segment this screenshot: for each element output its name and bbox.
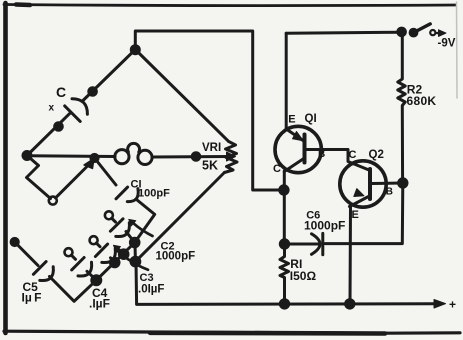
capacitor C2 branch: terminal, plates, wire to D1 — [105, 211, 135, 242]
transistor Q2 — [340, 161, 403, 207]
node on edge lower — [55, 123, 63, 131]
node C6/R1 — [280, 240, 288, 248]
svg-text:1000pF: 1000pF — [304, 219, 345, 233]
resistor R1 — [280, 244, 289, 304]
svg-text:Iµ F: Iµ F — [22, 291, 42, 305]
node wiper feed — [192, 153, 200, 161]
svg-text:1000pF: 1000pF — [156, 251, 196, 263]
svg-text:5K: 5K — [202, 159, 218, 173]
annotation arrow for C3 — [117, 251, 148, 270]
node diamond top — [131, 46, 139, 54]
annotation arrow for C2 — [133, 223, 153, 237]
svg-text:.IµF: .IµF — [89, 297, 110, 311]
svg-text:QI: QI — [305, 113, 317, 125]
wire diamond upper-left edge — [27, 50, 135, 156]
wire C1 branch — [95, 158, 155, 243]
node mid arrow dot — [91, 154, 98, 161]
capacitor C3 branch: terminal, plates, wire to D5 — [90, 236, 116, 262]
wiper arrowhead — [227, 152, 236, 161]
resistor R2 — [398, 32, 405, 183]
switch pivot node — [410, 29, 417, 36]
border frame top — [4, 5, 456, 6]
border frame bottom — [4, 331, 460, 333]
wire C6 left to node — [285, 243, 319, 246]
bottom rail arrowhead to + — [434, 300, 446, 309]
border frame left — [3, 3, 8, 333]
svg-text:B: B — [318, 149, 325, 160]
wire -9V top rail — [286, 32, 401, 33]
wire fan diagonal B — [96, 243, 134, 281]
svg-text:E: E — [352, 209, 359, 221]
svg-text:E: E — [288, 114, 295, 126]
wire top-left rail from diamond top to Q1 collector feed — [135, 31, 283, 190]
node emitter-rail junction — [346, 300, 354, 308]
capacitor C plates — [65, 99, 88, 122]
svg-text:B: B — [386, 187, 393, 198]
node D2 — [119, 250, 128, 259]
wire zigzag from left vertex to open terminal — [27, 156, 51, 199]
svg-text:100pF: 100pF — [138, 188, 170, 200]
switch junction node — [398, 28, 406, 36]
svg-text:x: x — [49, 103, 55, 114]
battery terminal circle — [430, 30, 435, 35]
wire diamond upper-right edge — [135, 50, 228, 142]
node D3 — [131, 257, 140, 266]
battery arrow — [437, 32, 440, 34]
transistor Q1 — [275, 126, 321, 172]
svg-text:Q2: Q2 — [369, 149, 384, 161]
capacitor C6 plates — [312, 233, 323, 254]
terminal open circle O1 — [49, 197, 57, 205]
wire Q2 emitter down to rail — [349, 207, 353, 304]
svg-text:C3: C3 — [140, 272, 154, 284]
svg-text:VRI: VRI — [202, 142, 221, 154]
wire arrow from O1 to mid-line — [56, 165, 90, 198]
svg-text:-9V: -9V — [438, 38, 456, 50]
capacitor C5 branch — [11, 238, 96, 301]
wire diagonal A VR1 to D3 — [135, 173, 224, 262]
switch lever — [414, 24, 431, 33]
wire Q1 emitter vertical — [285, 33, 288, 130]
node R1-rail junction — [280, 300, 288, 308]
node on edge upper — [89, 88, 97, 96]
svg-text:C: C — [273, 163, 281, 175]
node Q2 base junction — [399, 179, 407, 187]
node D1 — [130, 238, 139, 247]
capacitor C4 branch: terminal, plates, wire to D4 — [65, 248, 97, 280]
wire mid line left — [27, 154, 115, 158]
svg-text:C: C — [349, 149, 357, 161]
wire Q1 collector down — [283, 171, 286, 244]
node D5 — [110, 258, 119, 267]
svg-text:I50Ω: I50Ω — [290, 269, 317, 283]
svg-text:+: + — [449, 298, 456, 312]
wire D3 down to bottom rail corner — [136, 262, 435, 305]
wire link D1 to D3 — [134, 243, 137, 262]
wire Q1 base to Q2 collector — [306, 150, 370, 171]
capacitor C1 plates — [116, 187, 138, 202]
svg-text:C: C — [56, 84, 66, 100]
wire mid line right — [152, 155, 229, 159]
border frame right — [456, 2, 459, 98]
stub at D2 — [117, 247, 124, 254]
wire Q2 base node down and left to C6 — [325, 183, 403, 244]
potentiometer VR1 zigzag — [224, 141, 237, 172]
svg-text:.0IµF: .0IµF — [138, 284, 164, 296]
node D4 — [92, 276, 101, 285]
svg-text:680K: 680K — [407, 94, 437, 108]
node left vertex — [23, 152, 31, 160]
node Q1 collector junction — [280, 186, 288, 194]
headphones symbol — [115, 143, 152, 164]
